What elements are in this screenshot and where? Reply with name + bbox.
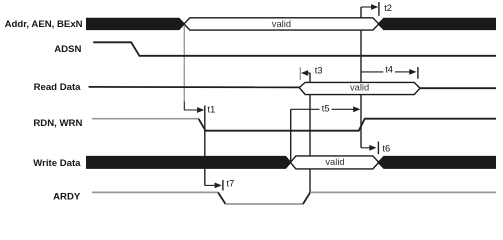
svg-text:t4: t4 [385,65,393,75]
svg-text:valid: valid [272,18,291,29]
signal label ADSN [54,44,81,55]
bus Write Data invalid segment 1 (black) [86,156,292,169]
wire ARDY low segment (gray) [226,203,304,205]
reference line from t3 corner down to ARDY rising edge [309,73,311,193]
bus Write Data invalid segment 2 (black) [377,156,496,169]
wire Read Data idle line (right) [420,87,496,89]
reference line from Addr transition down to t1 (gray) [183,26,185,102]
svg-text:RDN, WRN: RDN, WRN [33,118,82,129]
wire RDN/WRN previous-state high (gray) [92,118,199,120]
bus Addr/AEN/BExN valid segment (white) [184,18,379,30]
bus Addr/AEN/BExN invalid segment 1 (black) [86,18,185,30]
annotation t4 arrow [361,65,418,79]
gray tick at start of Read Data valid (t3 reference) [299,67,301,80]
bus Addr/AEN/BExN invalid segment 2 (black) [377,18,496,30]
wire ADSN waveform [93,42,496,56]
reference line from t1 tick down to t7 corner [204,106,206,186]
signal label Read Data [34,82,82,93]
annotation t1 arrow [184,102,215,115]
svg-text:t6: t6 [382,143,390,153]
bus Write Data valid segment (white) [290,156,378,169]
bus Read Data valid segment [299,82,420,94]
svg-text:t1: t1 [208,104,216,114]
value label valid (Addr bus) [272,18,291,29]
signal label ARDY [53,192,81,203]
wire ARDY high segment after ready (gray) [310,191,496,193]
svg-text:t5: t5 [322,104,330,114]
svg-text:t2: t2 [384,3,392,13]
value label valid (Write Data bus) [325,156,344,167]
annotation t2 arrow [361,2,392,16]
value label valid (Read Data bus) [350,82,369,93]
svg-text:t3: t3 [315,65,323,75]
wire ARDY previous-state high (gray) [92,191,218,193]
wire ARDY rising edge [303,192,310,204]
reference line from t2 corner down to t6 corner [360,7,362,148]
svg-text:Write Data: Write Data [33,158,81,169]
wire Read Data idle line (left) [89,86,300,88]
svg-text:ADSN: ADSN [54,44,81,55]
annotation t7 arrow [205,179,234,191]
reference line from t5 corner down to Write Data transition [290,109,292,161]
svg-text:Read Data: Read Data [34,82,82,93]
annotation t5 arrow [291,104,361,114]
wire ARDY falling edge [218,192,226,204]
annotation t6 arrow [361,142,390,155]
signal label Addr, AEN, BExN [5,19,83,30]
svg-text:t7: t7 [227,179,235,189]
signal label RDN, WRN [33,118,82,129]
svg-text:valid: valid [325,156,344,167]
svg-text:ARDY: ARDY [53,192,81,203]
annotation t3 arrow (points left) [301,65,323,76]
wire RDN/WRN active-low pulse [199,119,497,131]
svg-text:valid: valid [350,82,369,93]
svg-text:Addr, AEN, BExN: Addr, AEN, BExN [5,19,83,30]
signal label Write Data [33,158,81,169]
